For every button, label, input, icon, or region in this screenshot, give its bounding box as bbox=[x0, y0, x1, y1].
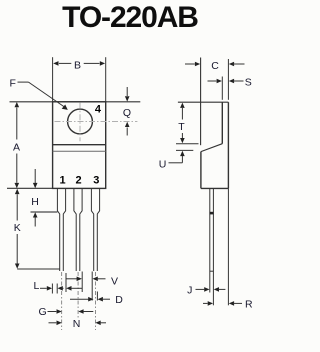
dimension S bbox=[208, 80, 217, 82]
pin 3 centerline bbox=[95, 272, 97, 330]
svg-text:V: V bbox=[111, 276, 118, 288]
pin 1 centerline bbox=[61, 272, 63, 330]
lead shoulder tick bbox=[210, 212, 214, 215]
hole crosshair vertical centerline bbox=[79, 103, 81, 142]
tab back extension above bbox=[227, 59, 229, 100]
tab back extension below bbox=[227, 188, 229, 305]
svg-text:R: R bbox=[245, 299, 253, 311]
side body front edge upper bbox=[200, 58, 202, 146]
B arrowheads bbox=[53, 61, 58, 66]
side chamfer diagonal bbox=[201, 144, 222, 152]
svg-text:G: G bbox=[39, 306, 47, 318]
mounting hole bbox=[68, 109, 93, 134]
svg-text:2: 2 bbox=[75, 174, 81, 186]
dimension Q bbox=[126, 87, 128, 136]
svg-text:3: 3 bbox=[93, 174, 99, 186]
dimension B bbox=[53, 57, 106, 102]
K leader line at pin tips bbox=[17, 268, 60, 270]
tab top edge + left extension bbox=[178, 101, 229, 103]
svg-text:F: F bbox=[10, 77, 16, 89]
pin 2 outline bbox=[74, 188, 82, 271]
svg-text:S: S bbox=[245, 76, 252, 88]
B dim tails bbox=[59, 62, 71, 64]
extension line pin3 wide left bbox=[91, 272, 93, 301]
tab/body boundary line 2 (lighter) bbox=[53, 150, 106, 152]
pin 1 outline bbox=[57, 188, 65, 271]
svg-text:D: D bbox=[115, 294, 123, 306]
extension line pin3 narrow right bbox=[96, 292, 98, 301]
extension line body left edge bbox=[51, 284, 53, 294]
F leader arrowhead bbox=[62, 105, 68, 110]
B right extension line bbox=[105, 57, 107, 102]
svg-text:4: 4 bbox=[95, 104, 102, 116]
tab/body boundary line 1 bbox=[53, 144, 106, 146]
dimension R bbox=[203, 302, 208, 304]
U extension line upper bbox=[176, 143, 199, 145]
dimension K bbox=[17, 194, 60, 269]
dimension H bbox=[31, 169, 58, 227]
svg-text:J: J bbox=[187, 285, 192, 297]
svg-text:L: L bbox=[34, 280, 40, 292]
tab front extension above bbox=[221, 77, 223, 100]
side lead bbox=[210, 188, 214, 305]
svg-text:1: 1 bbox=[59, 174, 65, 186]
extension line pin2 wide right bbox=[81, 272, 83, 293]
extension line pin1 wide left bbox=[56, 284, 58, 294]
svg-text:T: T bbox=[178, 121, 185, 133]
svg-text:U: U bbox=[159, 158, 167, 170]
svg-text:A: A bbox=[13, 142, 20, 154]
svg-text:B: B bbox=[74, 60, 81, 72]
B left extension line bbox=[52, 57, 54, 102]
tab front face bbox=[221, 102, 223, 144]
svg-text:C: C bbox=[211, 60, 219, 72]
pin 2 centerline bbox=[77, 272, 79, 319]
dimension T bbox=[181, 108, 183, 140]
tab back face bbox=[227, 102, 229, 188]
tab top edge + extension lines bbox=[10, 101, 141, 103]
svg-text:K: K bbox=[14, 222, 21, 234]
svg-text:H: H bbox=[31, 196, 39, 208]
lead tip line bbox=[210, 270, 214, 272]
dimension D row bbox=[70, 298, 89, 300]
pin 3 outline bbox=[91, 188, 99, 271]
Q arrowheads bbox=[125, 96, 130, 101]
body bottom extension line for A/K bbox=[7, 187, 53, 189]
F leader line bbox=[18, 82, 65, 107]
dimension A bbox=[16, 108, 18, 183]
dimension C bbox=[185, 63, 195, 65]
svg-text:N: N bbox=[73, 318, 81, 330]
side body bottom edge bbox=[201, 187, 229, 189]
extension line pin1 wide right bbox=[65, 273, 67, 292]
H leader line at shoulder bbox=[31, 211, 58, 213]
hole crosshair horizontal centerline bbox=[55, 121, 138, 123]
dimension U arrow and leader bbox=[180, 151, 185, 156]
dimension V row bbox=[66, 278, 78, 280]
dimension N row bbox=[49, 322, 57, 324]
side body front edge lower bbox=[200, 152, 202, 189]
svg-text:TO-220AB: TO-220AB bbox=[62, 1, 198, 34]
body outline front view bbox=[53, 102, 106, 189]
svg-text:Q: Q bbox=[123, 107, 131, 119]
U extension line lower bbox=[176, 149, 193, 151]
